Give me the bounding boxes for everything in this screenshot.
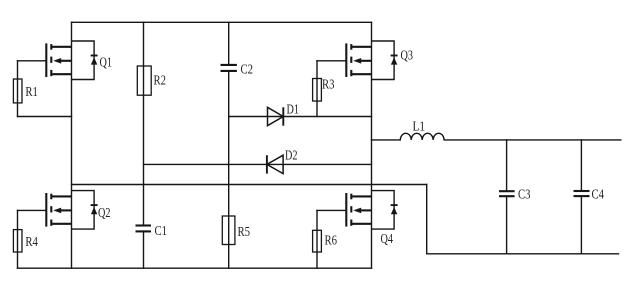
transistor Q1	[46, 41, 97, 80]
wire C2 R5 branch upper	[228, 22, 230, 65]
svg-text:C1: C1	[155, 223, 168, 238]
svg-text:R1: R1	[25, 84, 38, 99]
svg-text:L1: L1	[413, 119, 426, 134]
resistor R5	[222, 216, 235, 245]
resistor R1	[13, 79, 22, 103]
resistor R3	[313, 79, 322, 102]
wire Q3 gate lead	[317, 60, 346, 62]
wire R3 branch	[316, 61, 318, 117]
transistor Q2	[46, 191, 97, 230]
svg-text:D1: D1	[287, 102, 300, 117]
capacitor C2	[221, 65, 237, 71]
svg-text:Q4: Q4	[381, 231, 394, 246]
wire R1 to source	[18, 116, 72, 118]
wire R4 branch	[17, 210, 19, 268]
wire R6 branch	[316, 210, 318, 268]
resistor R6	[313, 230, 322, 252]
inductor L1	[400, 133, 444, 140]
transistor Q3	[346, 41, 397, 80]
svg-text:R4: R4	[25, 234, 38, 249]
wire left bridge leg	[71, 22, 73, 268]
diode D1	[268, 107, 284, 125]
svg-text:Q3: Q3	[401, 48, 414, 63]
wire C3 branch lower	[506, 196, 508, 254]
wire bottom rail	[18, 267, 372, 269]
wire C4 branch upper	[580, 140, 582, 191]
wire D2 rail	[144, 163, 372, 165]
svg-text:R6: R6	[325, 233, 338, 248]
wire mid rail	[72, 184, 427, 186]
wire R2 C1 branch upper	[143, 22, 145, 225]
wire L1 right	[444, 139, 621, 141]
svg-text:R5: R5	[238, 224, 251, 239]
capacitor C4	[574, 191, 590, 196]
svg-text:R3: R3	[322, 77, 335, 92]
transistor Q4	[346, 191, 397, 230]
capacitor C3	[499, 191, 515, 196]
wire R2 C1 branch lower	[143, 231, 145, 268]
wire C2 R5 branch lower	[228, 71, 230, 268]
svg-text:D2: D2	[285, 148, 298, 163]
wire R1 branch	[17, 61, 19, 117]
diode D2	[267, 155, 283, 173]
svg-text:R2: R2	[154, 73, 167, 88]
wire Q2 gate lead	[18, 209, 47, 211]
resistor R4	[13, 230, 22, 252]
wire output bottom rail	[427, 253, 619, 255]
wire right bridge leg	[371, 22, 373, 268]
wire Q4 gate lead	[317, 209, 346, 211]
capacitor C1	[136, 226, 152, 232]
wire C3 branch upper	[506, 140, 508, 191]
svg-text:C3: C3	[518, 187, 531, 202]
wire output jog	[426, 185, 428, 254]
wire C4 branch lower	[580, 196, 582, 254]
wire top rail	[72, 21, 372, 23]
svg-text:C4: C4	[592, 187, 605, 202]
resistor R2	[137, 66, 151, 95]
wire D1 rail	[229, 116, 372, 118]
wire Q1 gate lead	[18, 60, 47, 62]
svg-text:C2: C2	[241, 62, 254, 77]
svg-text:Q1: Q1	[100, 55, 113, 70]
wire L1 left	[372, 139, 401, 141]
svg-text:Q2: Q2	[98, 205, 111, 220]
